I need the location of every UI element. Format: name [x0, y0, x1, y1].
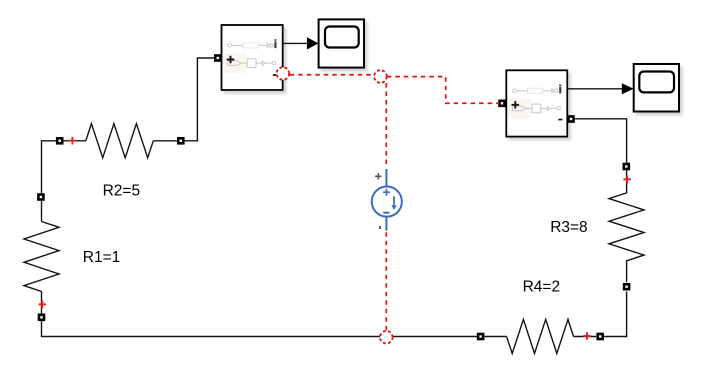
svg-text:R4=2: R4=2 — [523, 278, 561, 295]
svg-text:R2=5: R2=5 — [103, 183, 141, 200]
svg-text:R1=1: R1=1 — [83, 249, 121, 266]
svg-text:R3=8: R3=8 — [550, 219, 588, 236]
